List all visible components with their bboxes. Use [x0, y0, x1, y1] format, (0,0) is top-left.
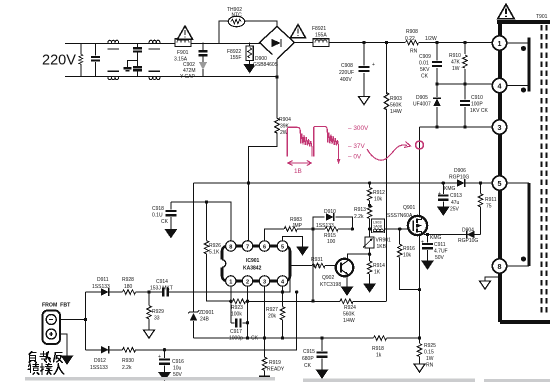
pin 4	[277, 276, 287, 286]
pin 8	[226, 241, 236, 251]
svg-text:Q901: Q901	[403, 205, 415, 211]
inductor choke1 bottom	[107, 71, 119, 79]
transformer winding bar lower	[507, 183, 529, 266]
ground R914	[364, 284, 375, 292]
chain resistor R912	[367, 181, 385, 202]
svg-text:680P: 680P	[302, 356, 314, 362]
resistor R930	[122, 348, 136, 372]
svg-text:C913: C913	[450, 193, 462, 199]
svg-text:4.7UF: 4.7UF	[434, 249, 448, 255]
svg-text:0.1U: 0.1U	[152, 213, 163, 219]
node phase dot upper2	[521, 87, 526, 92]
diode D904	[458, 228, 478, 245]
svg-text:1A08: 1A08	[373, 224, 382, 228]
svg-text:+: +	[438, 191, 441, 197]
ground C911	[422, 261, 433, 269]
svg-text:5.1K: 5.1K	[209, 250, 220, 256]
svg-text:1: 1	[229, 279, 232, 285]
svg-text:CK: CK	[161, 219, 169, 225]
resistor R927	[266, 286, 285, 338]
capacitor C911	[421, 233, 448, 261]
warning triangle at F8921	[291, 25, 306, 38]
svg-text:D905: D905	[416, 95, 428, 101]
label T901	[536, 14, 548, 20]
svg-text:NTC: NTC	[232, 13, 243, 19]
wire NTC branch	[219, 21, 277, 43]
svg-text:220UF: 220UF	[339, 70, 354, 76]
svg-text:10k: 10k	[374, 197, 383, 203]
wire gate row	[370, 227, 408, 230]
transformer core dashed lines	[542, 25, 547, 315]
svg-text:+: +	[372, 62, 375, 68]
resistor R923	[231, 299, 246, 318]
capacitor C913	[438, 181, 462, 212]
resistor R928	[122, 277, 136, 294]
wire bottom ground rail	[194, 336, 420, 339]
ground bar R919	[259, 376, 270, 379]
text Chinese load feedback	[28, 352, 64, 375]
svg-text:1/4W: 1/4W	[343, 318, 355, 324]
pin T4	[492, 78, 506, 92]
resistor R903	[384, 41, 402, 115]
label FROM FBT	[42, 303, 71, 309]
svg-text:1K: 1K	[374, 270, 381, 276]
wire ZD901 column	[193, 183, 195, 338]
svg-text:8: 8	[229, 244, 232, 250]
svg-text:C910: C910	[471, 95, 483, 101]
svg-text:D910: D910	[324, 209, 336, 215]
svg-text:JMP: JMP	[292, 223, 303, 229]
svg-text:C915: C915	[303, 349, 315, 355]
diode D905	[413, 82, 441, 127]
wire R931 elbow to pin4 row	[283, 266, 291, 293]
svg-text:2: 2	[246, 279, 249, 285]
svg-text:R924: R924	[344, 305, 356, 311]
svg-text:10k: 10k	[403, 253, 412, 259]
resistor R919	[262, 338, 285, 376]
svg-text:50V: 50V	[435, 255, 445, 261]
pin 3	[259, 276, 269, 286]
resistor R926	[204, 202, 231, 301]
wire bridge negative column	[276, 59, 278, 147]
pin T3	[492, 120, 506, 134]
wire source sense row	[424, 234, 481, 236]
wire VREF row pin8	[171, 200, 231, 241]
ground C918	[165, 230, 176, 238]
ground pin5	[283, 236, 309, 255]
svg-text:100k: 100k	[231, 312, 242, 318]
svg-text:KA3842: KA3842	[243, 266, 262, 272]
svg-text:R913: R913	[354, 207, 366, 213]
chain resistor R913	[354, 201, 372, 231]
svg-text:1W: 1W	[452, 66, 460, 72]
svg-text:IC901: IC901	[246, 258, 260, 264]
svg-text:– 300V: – 300V	[348, 125, 369, 132]
svg-text:C914: C914	[156, 279, 168, 285]
capacitor C908	[339, 43, 375, 97]
transformer T901 primary bar	[497, 22, 550, 322]
svg-text:R931: R931	[311, 257, 323, 263]
svg-text:R926: R926	[209, 243, 221, 249]
svg-text:100: 100	[327, 239, 336, 245]
svg-text:C916: C916	[172, 359, 184, 365]
potentiometer VR901	[363, 229, 391, 261]
wire pin2 column	[246, 286, 249, 338]
svg-text:100P: 100P	[471, 102, 483, 108]
svg-text:C909: C909	[419, 54, 431, 60]
label -37V	[348, 143, 365, 150]
node AC bottom junction	[275, 75, 278, 78]
fuse F901	[174, 39, 191, 63]
label -0V	[348, 154, 362, 161]
warning triangle T901	[498, 4, 514, 18]
svg-text:KMG: KMG	[444, 186, 456, 192]
capacitor C914	[150, 279, 173, 297]
mosfet Q901	[387, 205, 427, 343]
svg-text:C911: C911	[434, 242, 446, 248]
svg-text:GSB8460S: GSB8460S	[253, 62, 279, 68]
resistor R918	[372, 336, 387, 359]
svg-text:1/2W: 1/2W	[425, 36, 437, 42]
svg-text:C917: C917	[230, 329, 242, 335]
svg-text:0.01: 0.01	[419, 61, 429, 67]
resistor R916	[397, 229, 421, 291]
ground C908	[359, 97, 370, 105]
thermistor TH902	[227, 7, 245, 27]
svg-text:R928: R928	[122, 277, 134, 283]
wire pin3 column	[264, 286, 266, 338]
svg-text:1SS133: 1SS133	[90, 365, 108, 371]
resistor input bleeder	[79, 43, 83, 76]
fuse F8921	[295, 26, 330, 46]
pin T1	[492, 36, 506, 50]
ground pin8	[480, 273, 500, 289]
ground connector	[62, 356, 73, 364]
svg-text:220V: 220V	[42, 53, 76, 69]
svg-text:R903: R903	[390, 96, 402, 102]
svg-text:25V: 25V	[450, 207, 460, 213]
resistor R925	[417, 336, 436, 368]
ground chassis F8922	[244, 61, 255, 73]
svg-text:47u: 47u	[451, 200, 460, 206]
pin 5	[277, 241, 287, 251]
wire AC top line	[65, 42, 260, 44]
svg-text:10u: 10u	[173, 366, 182, 372]
fuse F8922	[227, 43, 253, 62]
op-amp IC901 KA3842	[220, 246, 291, 281]
svg-text:20k: 20k	[268, 314, 277, 320]
svg-text:R912: R912	[373, 190, 385, 196]
svg-text:R916: R916	[403, 246, 415, 252]
ground C916	[159, 373, 170, 381]
svg-text:F901: F901	[177, 50, 189, 56]
wire C914 feedback row	[86, 290, 299, 293]
svg-text:R919: R919	[269, 360, 281, 366]
svg-text:155A: 155A	[315, 33, 327, 39]
svg-text:6: 6	[263, 244, 266, 250]
svg-text:Q902: Q902	[322, 275, 334, 281]
svg-text:3: 3	[263, 279, 266, 285]
wire pin4 row	[437, 82, 492, 85]
svg-text:560K: 560K	[343, 312, 355, 318]
wire connector vertical	[84, 292, 87, 350]
svg-text:2W: 2W	[280, 130, 288, 136]
inductor choke1 top	[107, 40, 119, 49]
pin T8	[492, 259, 506, 273]
resistor R983	[284, 217, 302, 231]
resistor R929	[147, 292, 164, 330]
svg-text:0.22: 0.22	[405, 36, 415, 42]
capacitor C918	[152, 202, 176, 230]
svg-text:4.7: 4.7	[313, 264, 320, 270]
label -300V	[348, 125, 369, 132]
wire right feedback column	[86, 292, 297, 351]
svg-text:1/4W: 1/4W	[390, 109, 402, 115]
svg-text:1KB: 1KB	[377, 244, 387, 250]
svg-text:75: 75	[486, 204, 492, 210]
svg-text:39K: 39K	[280, 124, 290, 130]
svg-text:5: 5	[498, 179, 502, 188]
grey page band bottom	[25, 377, 550, 382]
svg-text:KMG: KMG	[430, 235, 442, 241]
svg-text:– 37V: – 37V	[348, 143, 365, 150]
resistor R915	[313, 227, 352, 245]
node phase dot lower	[521, 256, 526, 261]
pin 1	[226, 276, 236, 286]
wire D910 node column	[311, 229, 314, 303]
svg-text:R908: R908	[406, 29, 418, 35]
wire connector bottom pin to ground	[60, 334, 67, 356]
svg-text:F8921: F8921	[312, 26, 326, 32]
wire pin3 row	[420, 125, 493, 128]
inductor choke2 top	[149, 40, 161, 49]
svg-text:1B: 1B	[294, 168, 302, 175]
wire out row pin6	[265, 229, 314, 241]
ground R929	[144, 330, 155, 338]
capacitor Y-cap upper	[133, 43, 142, 66]
svg-text:C908: C908	[341, 63, 353, 69]
svg-text:ZD901: ZD901	[199, 310, 214, 316]
capacitor C916	[158, 350, 184, 378]
wire pin1 column	[229, 286, 232, 323]
resistor R911	[478, 183, 497, 235]
svg-text:180: 180	[124, 284, 133, 290]
svg-text:R911: R911	[485, 197, 497, 203]
waveform annotation	[287, 126, 410, 162]
inductor choke2 bottom	[149, 71, 161, 79]
svg-text:47K: 47K	[451, 60, 461, 66]
capacitor C909	[419, 41, 442, 84]
ground R925	[414, 364, 425, 372]
probe node circle	[416, 141, 424, 149]
svg-text:FROM FBT: FROM FBT	[42, 303, 71, 309]
svg-text:R930: R930	[122, 358, 134, 364]
svg-text:2.2k: 2.2k	[354, 214, 364, 220]
wire connector top pin	[60, 319, 86, 321]
svg-text:1: 1	[498, 39, 502, 48]
pin 2	[242, 276, 252, 286]
svg-text:Y-CAP: Y-CAP	[180, 74, 195, 80]
svg-text:7: 7	[246, 244, 249, 250]
wire B+ rail	[329, 42, 492, 44]
svg-text:R914: R914	[373, 263, 385, 269]
resistor R908	[405, 29, 437, 55]
svg-text:CK: CK	[421, 74, 429, 80]
zener ZD901	[188, 310, 214, 323]
diode D911	[92, 277, 110, 296]
transistor Q902	[320, 259, 353, 288]
svg-text:0.15: 0.15	[424, 350, 434, 356]
svg-text:R927: R927	[266, 307, 278, 313]
svg-text:1k: 1k	[376, 353, 382, 359]
svg-text:D912: D912	[94, 358, 106, 364]
pin 6	[259, 241, 269, 251]
svg-text:560K: 560K	[390, 103, 402, 109]
inductor L903	[371, 219, 384, 233]
pin T5	[492, 176, 506, 190]
svg-text:3: 3	[498, 123, 502, 132]
svg-text:5KV: 5KV	[420, 67, 430, 73]
wire R904 to VCC rail elbow	[249, 133, 278, 241]
svg-text:5: 5	[281, 244, 284, 250]
capacitor C910	[460, 84, 488, 127]
svg-text:R929: R929	[152, 309, 164, 315]
transformer winding bar upper	[507, 38, 529, 92]
svg-text:CK: CK	[304, 363, 312, 369]
resistor R924	[340, 299, 387, 324]
svg-text:VR901: VR901	[376, 238, 392, 244]
resistor R931	[290, 257, 336, 270]
svg-text:D911: D911	[97, 277, 109, 283]
svg-text:R923: R923	[231, 305, 243, 311]
label 220V	[42, 53, 76, 69]
svg-text:153J MKT: 153J MKT	[150, 286, 173, 292]
svg-text:RN: RN	[426, 363, 434, 369]
svg-text:R910: R910	[449, 53, 461, 59]
svg-text:SSS7N60A: SSS7N60A	[387, 213, 413, 219]
warning triangle at F901	[178, 26, 193, 39]
svg-text:D906: D906	[454, 168, 466, 174]
svg-text:RGP10G: RGP10G	[449, 175, 469, 181]
diode D906	[449, 168, 482, 187]
dimension arrow 1B	[288, 161, 312, 166]
node phase dot upper1	[521, 46, 526, 51]
svg-text:KTC3198: KTC3198	[320, 282, 341, 288]
diode D912	[90, 346, 109, 371]
svg-text:4: 4	[498, 81, 502, 90]
svg-text:T901: T901	[536, 14, 548, 20]
svg-text:1W: 1W	[426, 356, 434, 362]
capacitor Y-cap lower	[133, 67, 142, 76]
ground C915	[317, 370, 328, 378]
svg-text:+: +	[158, 354, 161, 360]
svg-text:RGP10G: RGP10G	[458, 238, 478, 244]
capacitor input X-cap	[91, 43, 100, 76]
capacitor C917	[229, 318, 259, 341]
connector FBT	[43, 311, 61, 345]
svg-text:D904: D904	[462, 228, 474, 234]
svg-text:33: 33	[154, 316, 160, 322]
svg-text:+: +	[421, 240, 424, 246]
ground C913	[438, 207, 449, 215]
resistor R904	[275, 117, 291, 136]
svg-text:400V: 400V	[340, 77, 352, 83]
ground Q902 emitter	[342, 276, 353, 295]
svg-text:R904: R904	[279, 117, 291, 123]
svg-text:1SS133: 1SS133	[92, 284, 110, 290]
pin 7	[242, 241, 252, 251]
wire R903 column down	[386, 109, 388, 301]
svg-text:8: 8	[498, 262, 502, 271]
wire drain line	[419, 127, 421, 217]
svg-text:RN: RN	[410, 49, 418, 55]
svg-text:READY: READY	[267, 367, 285, 373]
diode D910 parallel loop	[311, 209, 354, 231]
wire VCC rail	[194, 181, 493, 184]
capacitor C902	[180, 43, 208, 81]
wire Q902 collector	[348, 254, 370, 259]
svg-text:C918: C918	[152, 206, 164, 212]
capacitor C915	[302, 338, 327, 370]
svg-text:– 0V: – 0V	[348, 154, 362, 161]
svg-text:UF4007: UF4007	[413, 102, 431, 108]
resistor R910	[449, 41, 467, 84]
svg-text:155F: 155F	[230, 55, 241, 61]
wire AC bottom line	[65, 76, 277, 78]
svg-text:R925: R925	[424, 343, 436, 349]
svg-text:R918: R918	[372, 346, 384, 352]
wire R923 row to R924	[248, 300, 341, 302]
svg-text:2.2k: 2.2k	[122, 365, 132, 371]
label 1B	[294, 168, 302, 175]
bridge rectifier D900	[253, 27, 295, 69]
node C908	[362, 41, 365, 44]
chain resistor R914	[367, 253, 385, 285]
ground Y-cap midpoint	[123, 61, 137, 71]
svg-text:24B: 24B	[200, 317, 210, 323]
svg-text:1KV CK: 1KV CK	[470, 108, 488, 114]
